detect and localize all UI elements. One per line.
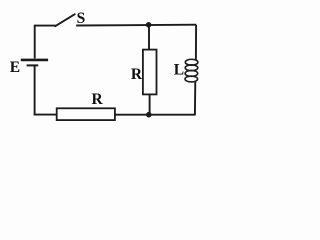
battery E short plate (27, 64, 39, 66)
inductor L coil loop 1 (185, 59, 198, 65)
svg-text:S: S (77, 10, 86, 27)
svg-text:L: L (174, 62, 184, 79)
wire top horizontal (switch to top-right corner) (76, 24, 196, 27)
wire bottom horizontal (resistor to bottom-right corner) (115, 114, 195, 116)
wire right vertical lower (inductor to bottom-right corner) (194, 82, 196, 116)
svg-text:E: E (10, 59, 20, 76)
resistor R (vertical, right) (143, 50, 157, 95)
wire R branch lower (resistor bottom to junction) (149, 94, 151, 115)
node junction bottom (wire to R branch) (146, 112, 152, 118)
switch S blade (55, 14, 75, 26)
resistor R (horizontal, bottom) (57, 108, 115, 120)
wire top-left horizontal (battery to switch) (35, 25, 56, 27)
inductor L coil loop 2 (185, 65, 198, 71)
wire bottom-left horizontal (corner to resistor R) (34, 114, 57, 116)
wire left vertical lower (battery to bottom corner) (34, 65, 36, 115)
node junction top (wire to R branch) (146, 22, 152, 28)
inductor L coil loop 4 (185, 76, 198, 82)
wire R branch upper (junction to resistor top) (148, 25, 150, 50)
inductor L coil loop 3 (185, 70, 198, 76)
battery E long plate (21, 59, 48, 62)
svg-text:R: R (131, 66, 143, 83)
svg-text:R: R (92, 91, 104, 108)
wire left vertical upper (top corner to battery) (34, 25, 36, 59)
wire right vertical upper (top corner to inductor) (195, 25, 197, 60)
